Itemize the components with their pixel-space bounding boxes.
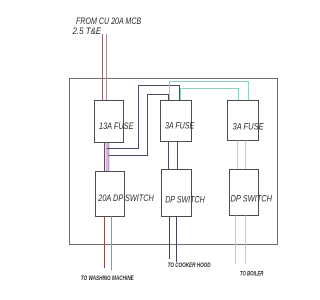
fuse F1 13A <box>95 101 124 143</box>
wire: navy pair F2 bottom to S2 top (right) <box>177 142 179 171</box>
switch S1 20A DP <box>96 172 125 217</box>
wire: supply neutral (maroon, right) from MCB down to fuse F1 <box>106 34 108 101</box>
wire: red feed S1 bottom to washing machine (light right) <box>111 217 113 271</box>
wire: navy feed S2 bottom to cooker hood (left) <box>169 217 171 260</box>
svg-text:20A DP SWITCH: 20A DP SWITCH <box>97 193 154 203</box>
enclosure outline (outer box) <box>70 79 278 245</box>
wire: teal feed S3 bottom to boiler (left) <box>235 216 237 264</box>
wire: red feed S1 bottom to washing machine (dark left) <box>104 217 106 269</box>
svg-text:DP SWITCH: DP SWITCH <box>231 194 273 204</box>
wire: navy branch A from F1/S1 link to fuse F2 top <box>107 86 180 149</box>
wire: lavender core line F1 to S1 <box>108 142 110 171</box>
fuse F2 3A (middle) <box>161 101 192 142</box>
label: supply feed "FROM CU 20A MCB / 2.5 T&E" <box>72 16 142 37</box>
switch S2 DP (middle) <box>162 170 192 217</box>
wire: supply live (maroon, left) from MCB down to fuse F1 <box>102 34 104 101</box>
wire: navy feed S2 bottom to cooker hood (right) <box>176 217 178 263</box>
wire: teal feed S3 bottom to boiler (right) <box>245 216 247 264</box>
svg-text:13A FUSE: 13A FUSE <box>99 121 134 131</box>
svg-text:TO BOILER: TO BOILER <box>240 272 264 278</box>
wire: teal link T1 from fuse F2 top to fuse F3 top <box>170 82 249 101</box>
wire: lavender pair F1 bottom to S1 top <box>106 142 110 171</box>
svg-text:DP SWITCH: DP SWITCH <box>165 195 205 205</box>
wire: teal pair F3 bottom to S3 top (left) <box>237 141 239 171</box>
svg-text:TO WASHING MACHINE: TO WASHING MACHINE <box>81 276 135 282</box>
fuse F3 3A (right) <box>228 101 259 141</box>
wire: navy pair F2 bottom to S2 top (left) <box>168 142 170 171</box>
svg-text:3A FUSE: 3A FUSE <box>165 121 195 131</box>
wire: teal pair F3 bottom to S3 top (right) <box>245 141 247 171</box>
wire: maroon core F1 bottom to S1 top <box>104 142 106 171</box>
svg-text:TO COOKER HOOD: TO COOKER HOOD <box>168 263 212 269</box>
svg-text:2.5 T&E: 2.5 T&E <box>72 26 102 37</box>
wire: teal link T2 from fuse F2 top to fuse F3 top <box>181 89 239 101</box>
wire: navy branch B from F1/S1 link to fuse F2 top <box>109 95 169 156</box>
switch S3 DP (right) <box>230 170 259 216</box>
svg-text:3A FUSE: 3A FUSE <box>233 122 265 132</box>
